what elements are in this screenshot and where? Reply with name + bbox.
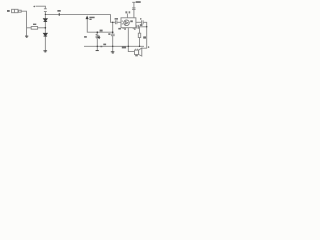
label C2 pin (118, 28, 121, 30)
rail V+ (45, 13, 110, 15)
ground G1 (25, 35, 28, 37)
diode D1 (44, 19, 48, 22)
pin 2 stub (122, 28, 124, 29)
wire C4 to right edge down (142, 22, 147, 48)
junction node branch (45, 27, 47, 29)
speaker terminal ticks (135, 49, 137, 50)
wire zobel from IC (135, 26, 138, 28)
op-amp triangle (125, 21, 128, 24)
capacitor C2 plates (44, 8, 47, 10)
wire resistor to diode column (38, 27, 46, 29)
speaker wire down (127, 28, 129, 47)
capacitor C4 plates (141, 20, 143, 24)
label 9V (7, 10, 10, 12)
junction node R2 bus (139, 46, 140, 47)
wiper wire (99, 36, 100, 38)
label C3 (103, 44, 106, 46)
junction node input C2 (112, 31, 114, 33)
ground bus (84, 45, 144, 47)
junction node pot top (97, 31, 99, 33)
wire rail corner down to C1 (111, 14, 116, 22)
input arrowhead (86, 17, 88, 19)
pin 4 stub (132, 28, 134, 29)
pin tick plus (122, 23, 123, 25)
speaker LS1 body (135, 50, 139, 54)
label audio (89, 17, 94, 19)
gain stub top bar (132, 1, 135, 3)
wire branch to resistor (27, 27, 32, 29)
plus speaker (148, 46, 150, 48)
capacitor C3 plates (111, 33, 115, 35)
label 8ohm (122, 46, 126, 48)
ground stem pot (96, 46, 98, 50)
ground G2 (43, 50, 47, 52)
ground G3 (96, 50, 99, 52)
wire battery to down-corner (21, 11, 26, 36)
label R1 value (33, 24, 36, 25)
wire diode2 to ground (44, 36, 46, 50)
wire C3 to bus (112, 36, 114, 47)
junction node zobel (146, 26, 147, 27)
label S1 (57, 10, 60, 12)
capacitor C5 plates (136, 25, 138, 29)
IC U1 box (121, 18, 136, 28)
label Gain (136, 1, 141, 3)
wire zobel to junction (139, 26, 147, 28)
label pin6 (125, 11, 127, 13)
speaker cone (139, 48, 142, 56)
label pin2 (124, 28, 126, 29)
label 386 (130, 20, 133, 22)
wire column cap to rail (44, 12, 46, 19)
wire input arrow down (87, 18, 112, 33)
label 10u gain (129, 11, 131, 13)
label C2 (108, 33, 110, 35)
label 10k (100, 30, 103, 32)
label pin4 (134, 28, 136, 29)
label LS (143, 36, 146, 38)
junction node pot bus (97, 46, 98, 47)
wire C1 to IC (117, 21, 121, 23)
label C3 value (100, 46, 102, 47)
wire diode1 to diode2 (44, 22, 46, 34)
battery B1 9V (12, 9, 18, 12)
diode D2 (44, 33, 48, 36)
plus C4 (140, 18, 142, 20)
resistor R2 column (139, 27, 141, 33)
junction node rail (45, 14, 46, 15)
capacitor C6 plates (132, 7, 135, 9)
gain cap stub (133, 2, 135, 17)
potentiometer VR1 body (96, 32, 98, 34)
junction node C3 bus (112, 46, 113, 47)
battery clip (19, 10, 22, 12)
wiper arrowhead (98, 37, 99, 39)
wire C2 branch down (112, 22, 114, 34)
ground G4 (111, 51, 115, 53)
capacitor C1 plates (114, 20, 116, 24)
junction node pin3 (112, 22, 113, 23)
label bus left (84, 36, 87, 38)
junction node spk bus (128, 46, 129, 47)
label under speaker (135, 55, 138, 56)
ground stem C3 (112, 46, 114, 51)
pin 6 stub (126, 14, 128, 18)
label in (89, 19, 91, 20)
plus battery (33, 5, 35, 7)
switch tick (58, 13, 60, 16)
background (0, 0, 150, 59)
resistor R1 box (31, 27, 37, 30)
label C1 (115, 18, 118, 20)
label C5 (140, 24, 143, 26)
wire IC output (136, 21, 141, 23)
op-amp circle (124, 20, 130, 26)
pin tick minus (122, 20, 123, 22)
wire plus to column top (36, 5, 46, 7)
